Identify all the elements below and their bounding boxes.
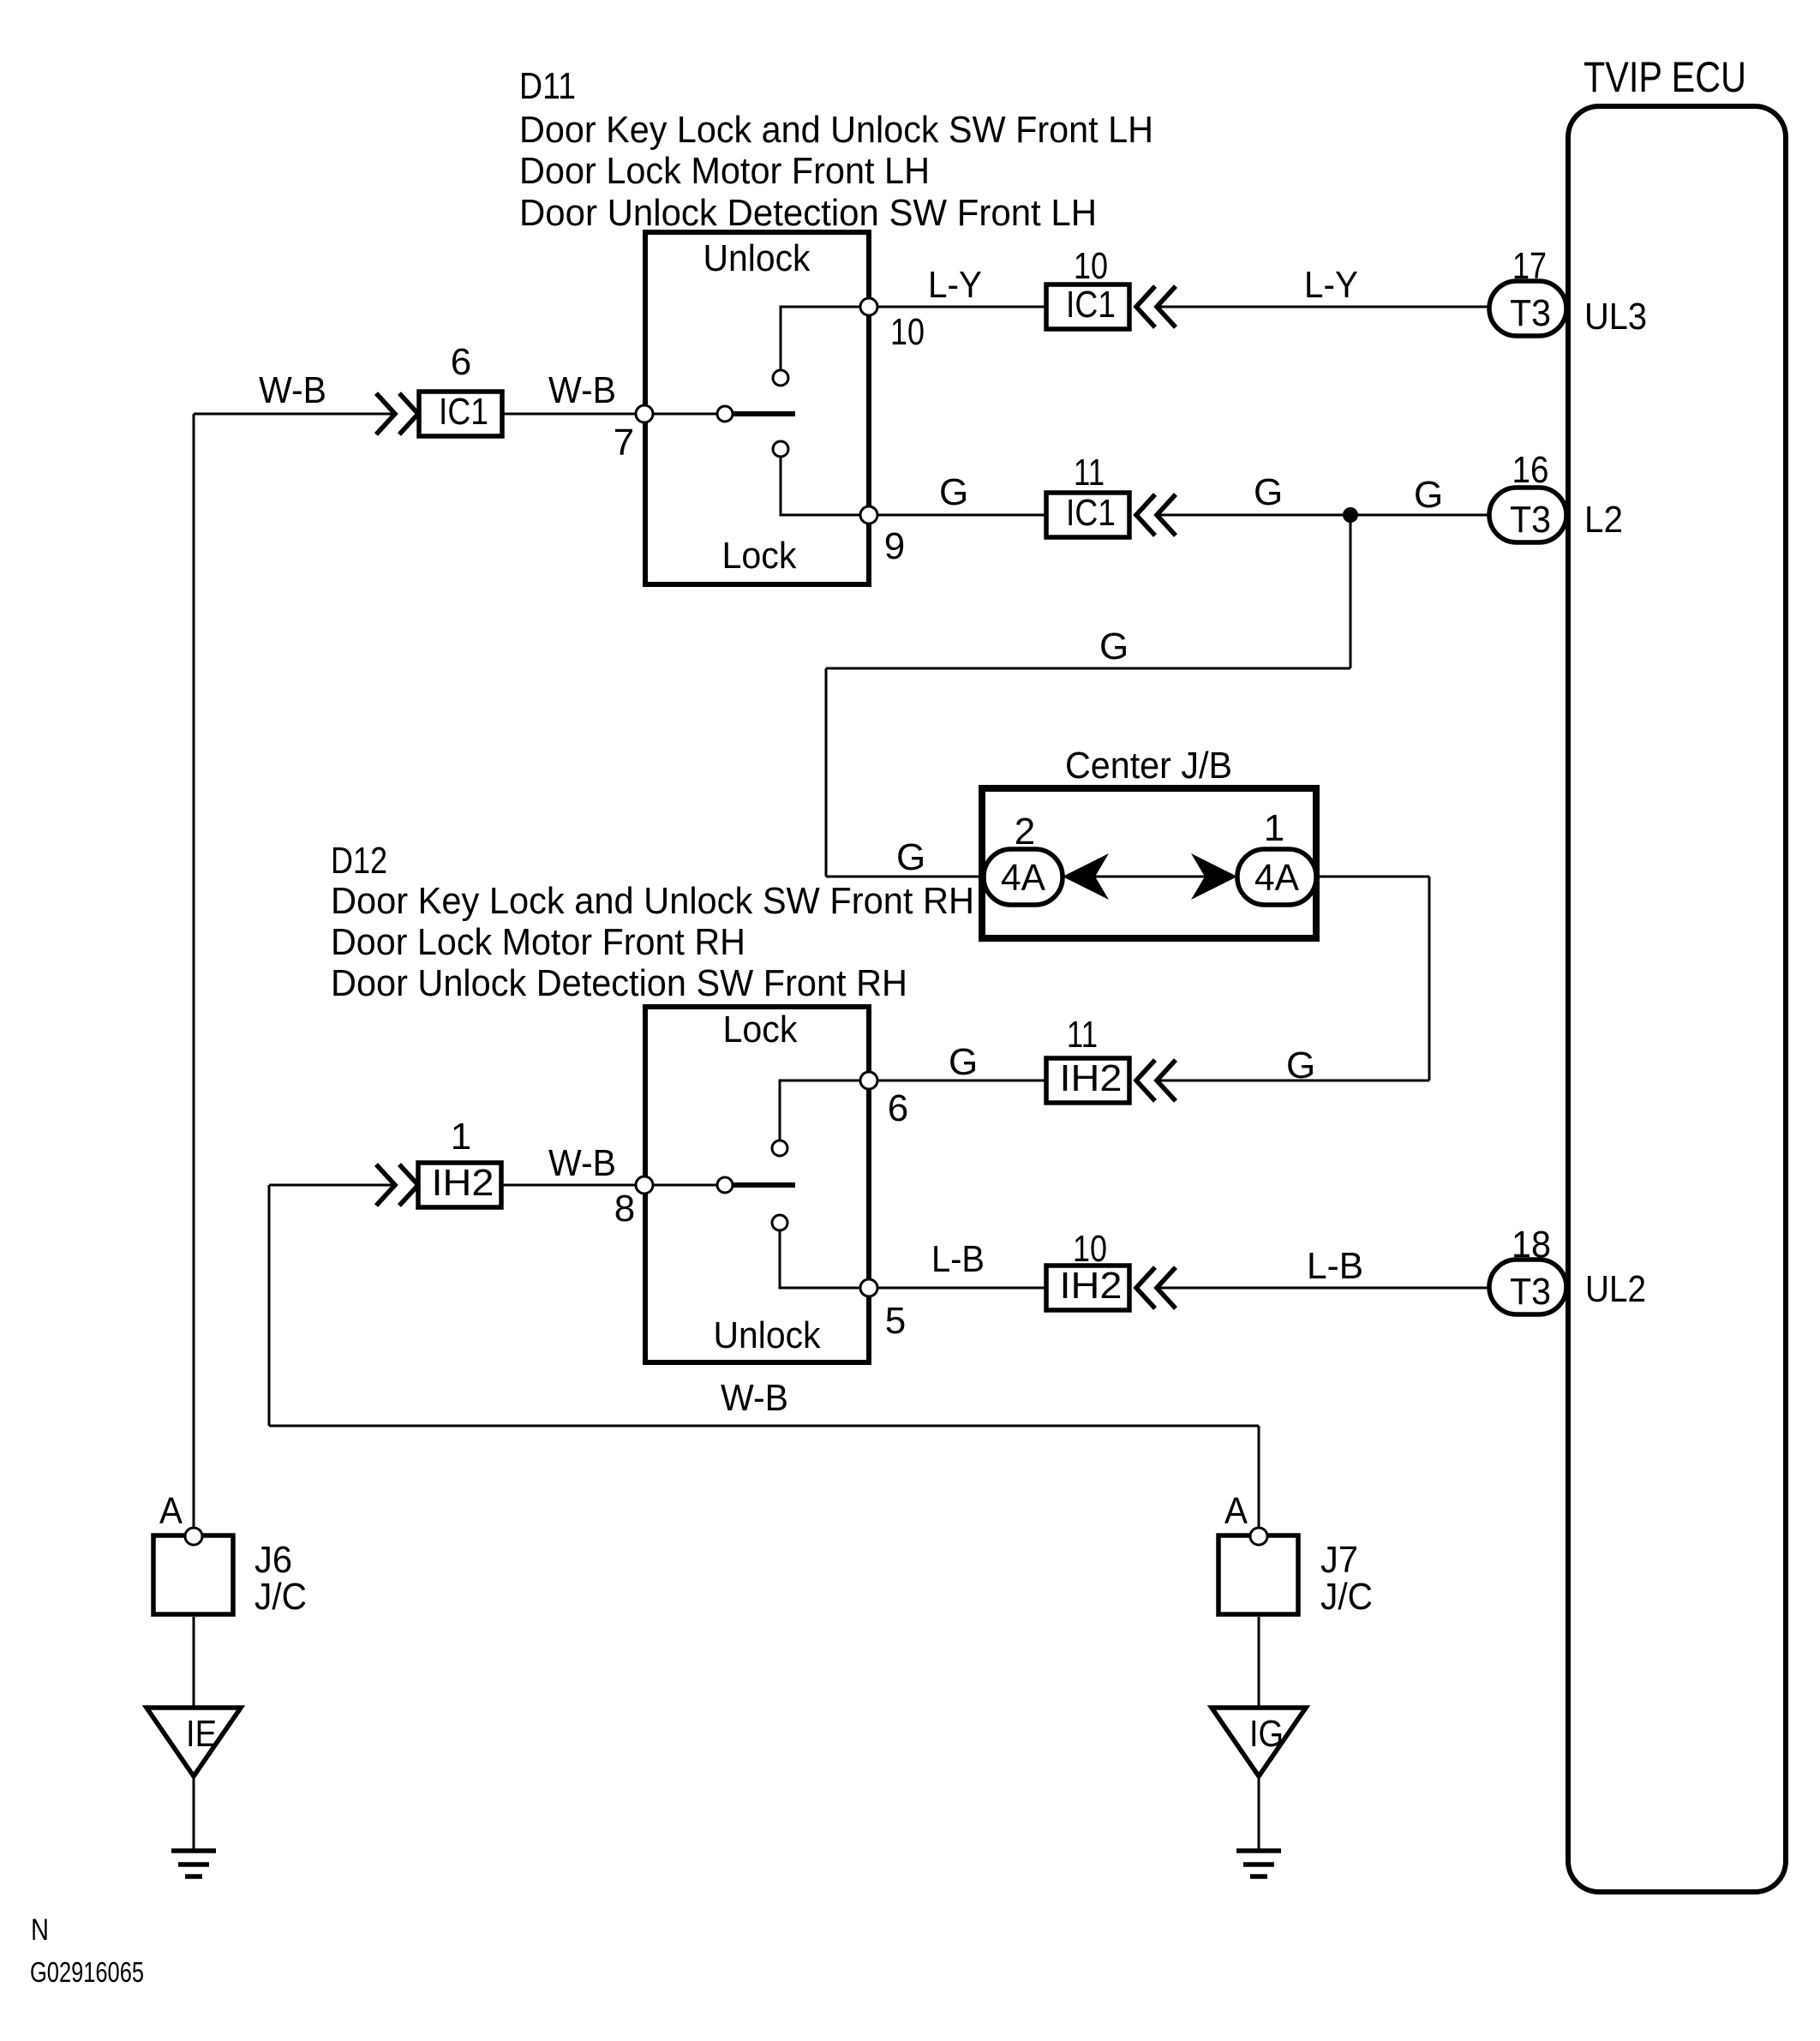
svg-text:10: 10 [1074, 245, 1108, 287]
svg-text:L-Y: L-Y [928, 264, 982, 306]
D12 switch pivot circle [717, 1177, 733, 1193]
D11 switch arm [733, 411, 795, 416]
svg-text:G: G [896, 836, 925, 878]
wire W-B from IC1 connector 6 to D11 pin 7 [502, 413, 645, 416]
svg-text:T3: T3 [1510, 1271, 1551, 1313]
connector IC1 pin 11 box [1046, 493, 1129, 537]
D11 component box [645, 232, 869, 584]
Center J/B arrow right [1191, 853, 1237, 900]
D12 upper contact circle [772, 1140, 787, 1156]
svg-text:5: 5 [885, 1300, 906, 1342]
D12 pin 6 node [860, 1072, 877, 1089]
D11 wire lower contact to pin 9 [781, 456, 869, 515]
wire W-B down to junction connector J7 [1258, 1426, 1260, 1529]
wire J7 to IG triangle [1258, 1617, 1260, 1708]
svg-text:L2: L2 [1584, 499, 1623, 541]
Center J/B terminal 4A pin 2 [984, 849, 1063, 905]
D11 switch pivot circle [717, 406, 733, 422]
connector IC1 pin 6 box [419, 392, 502, 436]
ground terminal IE triangle [147, 1708, 241, 1776]
junction dot on G wire [1343, 507, 1358, 523]
svg-text:N: N [31, 1913, 49, 1947]
wire G from D11 pin 9 to IC1 connector 11 [869, 514, 1046, 517]
svg-text:G: G [1414, 474, 1443, 516]
svg-text:Door Key Lock and Unlock SW Fr: Door Key Lock and Unlock SW Front RH [331, 880, 974, 922]
svg-text:IE: IE [186, 1713, 217, 1755]
svg-text:Door Key Lock and Unlock SW Fr: Door Key Lock and Unlock SW Front LH [519, 109, 1153, 151]
connector IC1 pin 11 arrows [1136, 494, 1155, 536]
D11 switch wire pin7 to pivot [645, 413, 725, 416]
J6 pin A node [185, 1528, 202, 1545]
svg-text:D11: D11 [519, 65, 576, 107]
svg-text:6: 6 [451, 341, 471, 383]
D11 pin 7 node [636, 405, 653, 422]
svg-text:Unlock: Unlock [703, 237, 811, 279]
junction connector J6 box [153, 1535, 233, 1614]
svg-text:10: 10 [1073, 1228, 1107, 1270]
svg-text:L-B: L-B [1307, 1245, 1363, 1287]
D11 pin 10 node [860, 298, 877, 315]
wire inside Center J/B between 4A terminals [1063, 876, 1237, 878]
wire G vertical to Center J/B [825, 668, 828, 877]
wire W-B vertical down to junction connector J6 [193, 414, 195, 1529]
wire G from D12 pin 6 to IH2 connector 11 [869, 1080, 1046, 1082]
wire W-B from junction corner to IC1 connector 6 [194, 413, 396, 416]
wire G from Center J/B pin 1 right [1316, 876, 1429, 878]
wire L-Y from D11 pin 10 to IC1 connector 10 [869, 306, 1046, 308]
wire J6 to IE triangle [193, 1617, 195, 1708]
connector IH2 pin 1 box [418, 1163, 501, 1207]
D12 switch wire pin8 to pivot [645, 1184, 725, 1187]
svg-text:A: A [1224, 1490, 1248, 1532]
svg-text:6: 6 [888, 1087, 908, 1129]
svg-text:G: G [939, 471, 968, 513]
D12 wire lower contact to pin 5 [780, 1230, 869, 1288]
J7 pin A node [1250, 1528, 1267, 1545]
svg-text:J/C: J/C [1320, 1576, 1373, 1618]
connector IC1 pin 6 arrows [376, 393, 395, 434]
ground symbol right [1236, 1848, 1281, 1853]
D12 wire upper contact to pin 6 [780, 1080, 869, 1140]
svg-text:11: 11 [1074, 452, 1105, 494]
svg-text:J6: J6 [254, 1539, 292, 1581]
wire G junction drop vertical [1350, 515, 1352, 668]
svg-text:IH2: IH2 [1060, 1265, 1123, 1307]
svg-text:G02916065: G02916065 [30, 1956, 144, 1988]
wire W-B long horizontal bottom [269, 1425, 1259, 1428]
svg-text:IG: IG [1249, 1713, 1284, 1755]
ground terminal IG triangle [1212, 1708, 1306, 1776]
wire G into Center J/B pin 2 [826, 876, 984, 878]
svg-text:T3: T3 [1510, 292, 1551, 334]
connector IH2 pin 11 box [1046, 1058, 1129, 1103]
connector IH2 pin 1 arrows [376, 1164, 395, 1206]
svg-text:Door Lock Motor Front RH: Door Lock Motor Front RH [331, 921, 745, 963]
terminal T3 pin 18 [1489, 1260, 1566, 1314]
svg-text:17: 17 [1512, 245, 1547, 287]
connector IC1 pin 10 arrows [1136, 286, 1155, 327]
D11 pin 9 node [860, 506, 877, 524]
D12 switch arm [733, 1182, 795, 1188]
Center J/B arrow left [1063, 853, 1109, 900]
D11 lower contact circle [773, 441, 788, 457]
connector IH2 pin 10 arrows [1136, 1267, 1155, 1308]
connector IC1 pin 10 box [1046, 284, 1129, 329]
svg-text:W-B: W-B [721, 1377, 788, 1419]
svg-text:W-B: W-B [259, 369, 326, 411]
svg-text:16: 16 [1512, 449, 1549, 491]
svg-text:T3: T3 [1510, 499, 1551, 541]
D12 pin 5 node [860, 1279, 877, 1296]
svg-text:Door Unlock Detection SW Front: Door Unlock Detection SW Front LH [519, 192, 1097, 234]
svg-text:IH2: IH2 [1060, 1057, 1123, 1099]
svg-text:IH2: IH2 [432, 1162, 494, 1204]
Center J/B terminal 4A pin 1 [1237, 849, 1316, 905]
svg-text:8: 8 [614, 1188, 635, 1230]
connector IH2 pin 10 box [1046, 1266, 1129, 1310]
svg-text:IC1: IC1 [1066, 284, 1116, 326]
svg-text:Center J/B: Center J/B [1065, 745, 1232, 787]
svg-text:Door Unlock Detection SW Front: Door Unlock Detection SW Front RH [331, 962, 907, 1004]
svg-text:UL2: UL2 [1585, 1268, 1646, 1310]
svg-text:Unlock: Unlock [714, 1314, 822, 1356]
terminal T3 pin 16 [1489, 488, 1566, 542]
svg-text:J/C: J/C [254, 1576, 307, 1618]
svg-text:18: 18 [1512, 1224, 1551, 1266]
D12 lower contact circle [772, 1215, 787, 1230]
svg-text:Lock: Lock [722, 535, 798, 577]
TVIP ECU block [1568, 106, 1786, 1892]
svg-text:Lock: Lock [723, 1009, 799, 1050]
svg-text:W-B: W-B [548, 1142, 616, 1184]
D12 pin 8 node [636, 1176, 653, 1194]
wire G left to IH2 connector 11 [1157, 1080, 1429, 1082]
svg-text:IC1: IC1 [439, 391, 488, 433]
svg-text:TVIP ECU: TVIP ECU [1584, 53, 1746, 101]
wire L-B from D12 pin 5 to IH2 connector 10 [869, 1287, 1046, 1290]
wire W-B into IH2 connector 1 [269, 1184, 396, 1187]
ground symbol left [171, 1848, 216, 1853]
svg-text:J7: J7 [1320, 1539, 1358, 1581]
svg-text:UL3: UL3 [1584, 296, 1647, 338]
D12 component box [645, 1007, 869, 1362]
svg-text:Door Lock Motor Front LH: Door Lock Motor Front LH [519, 150, 930, 192]
svg-text:A: A [159, 1490, 183, 1532]
terminal T3 pin 17 [1489, 281, 1566, 336]
svg-text:9: 9 [884, 525, 905, 567]
svg-text:L-B: L-B [931, 1238, 985, 1280]
wire G down from Center J/B [1428, 877, 1431, 1080]
svg-text:4A: 4A [1254, 857, 1300, 899]
svg-text:1: 1 [1264, 807, 1284, 849]
svg-text:W-B: W-B [548, 369, 616, 411]
D11 upper contact circle [773, 370, 788, 386]
svg-text:1: 1 [451, 1116, 471, 1158]
svg-text:G: G [1099, 625, 1129, 667]
svg-text:11: 11 [1067, 1014, 1098, 1056]
wire G horizontal jog [826, 667, 1350, 670]
svg-text:G: G [949, 1041, 978, 1083]
junction connector J7 box [1218, 1535, 1298, 1614]
svg-text:G: G [1254, 471, 1283, 513]
svg-text:D12: D12 [331, 840, 387, 882]
svg-text:G: G [1286, 1044, 1315, 1086]
wire L-B from IH2 connector 10 to TVIP ECU terminal 18 [1157, 1287, 1489, 1290]
Center J/B box [982, 788, 1316, 938]
svg-text:7: 7 [614, 422, 634, 464]
wire G from IC1 connector 11 to TVIP ECU terminal 16 [1157, 514, 1489, 517]
connector IH2 pin 11 arrows [1136, 1060, 1155, 1101]
svg-text:10: 10 [890, 311, 925, 353]
svg-text:L-Y: L-Y [1304, 264, 1358, 306]
wire L-Y from IC1 connector 10 to TVIP ECU terminal 17 [1157, 306, 1489, 308]
svg-text:IC1: IC1 [1066, 492, 1116, 534]
svg-text:2: 2 [1015, 811, 1035, 853]
wire W-B vertical from IH2 connector 1 [268, 1185, 271, 1426]
svg-text:4A: 4A [1001, 857, 1046, 899]
wire IE triangle to ground [193, 1776, 195, 1851]
D11 wire upper contact to pin 10 [781, 307, 869, 371]
wire W-B from IH2 connector 1 to D12 pin 8 [501, 1184, 645, 1187]
wire IG triangle to ground [1258, 1776, 1260, 1851]
